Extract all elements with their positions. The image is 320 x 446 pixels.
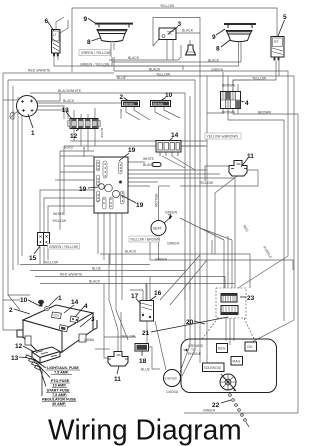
svg-text:GREEN / YELLOW: GREEN / YELLOW xyxy=(81,51,111,55)
svg-text:5: 5 xyxy=(283,14,287,21)
svg-text:BLACK: BLACK xyxy=(149,68,161,72)
svg-text:LIGHT/AUX. FUSE: LIGHT/AUX. FUSE xyxy=(47,366,79,370)
svg-text:13: 13 xyxy=(11,355,19,362)
svg-text:ENGINE: ENGINE xyxy=(188,352,202,356)
svg-text:BLACK: BLACK xyxy=(89,280,101,284)
svg-text:GREEN: GREEN xyxy=(167,242,180,246)
svg-text:13: 13 xyxy=(62,107,70,114)
svg-text:YELLOW: YELLOW xyxy=(52,219,67,223)
svg-text:YELLOW / BROWN: YELLOW / BROWN xyxy=(130,238,161,242)
svg-text:RED w/WHITE: RED w/WHITE xyxy=(60,273,83,277)
svg-text:2: 2 xyxy=(120,94,124,101)
svg-text:BLUE: BLUE xyxy=(92,267,102,271)
svg-text:BLACK: BLACK xyxy=(208,59,220,63)
svg-text:GREEN / YELLOW: GREEN / YELLOW xyxy=(49,245,79,249)
svg-text:WHITE: WHITE xyxy=(143,157,155,161)
svg-text:GREEN - YELLOW: GREEN - YELLOW xyxy=(80,63,110,67)
svg-text:16: 16 xyxy=(154,290,162,297)
svg-text:6: 6 xyxy=(45,18,49,25)
svg-text:STARTER: STARTER xyxy=(165,377,177,381)
svg-text:8: 8 xyxy=(87,39,91,46)
svg-text:LT: LT xyxy=(53,33,57,37)
svg-text:BLACK: BLACK xyxy=(125,250,137,254)
svg-text:7.5 AMP.: 7.5 AMP. xyxy=(52,393,67,397)
svg-text:SEAT: SEAT xyxy=(153,227,163,231)
svg-text:3: 3 xyxy=(91,316,95,323)
svg-text:BLACK: BLACK xyxy=(128,56,140,60)
svg-text:19: 19 xyxy=(79,186,87,193)
svg-text:12: 12 xyxy=(15,343,23,350)
svg-text:19: 19 xyxy=(128,147,136,154)
svg-text:11: 11 xyxy=(247,153,254,160)
svg-text:12: 12 xyxy=(70,133,78,140)
svg-text:9: 9 xyxy=(212,34,216,41)
svg-text:YELLOW: YELLOW xyxy=(156,73,171,77)
svg-text:BROWN: BROWN xyxy=(222,84,236,88)
svg-text:3: 3 xyxy=(178,21,182,28)
svg-text:21: 21 xyxy=(142,330,150,337)
svg-text:20: 20 xyxy=(186,319,194,326)
svg-text:YELLOW: YELLOW xyxy=(44,261,59,265)
svg-text:10 AMP.: 10 AMP. xyxy=(53,384,67,388)
svg-text:RED w/WHITE: RED w/WHITE xyxy=(28,69,51,73)
svg-text:WHITE: WHITE xyxy=(53,212,65,216)
svg-text:YELLOW: YELLOW xyxy=(252,77,267,81)
svg-text:BLACK: BLACK xyxy=(64,145,73,149)
svg-text:11: 11 xyxy=(114,376,121,383)
svg-text:BROWN: BROWN xyxy=(258,111,272,115)
svg-text:19: 19 xyxy=(136,202,144,209)
svg-text:YELLOW: YELLOW xyxy=(160,4,175,8)
svg-text:GREEN: GREEN xyxy=(165,211,178,215)
svg-text:BLACK: BLACK xyxy=(63,99,75,103)
svg-text:10: 10 xyxy=(20,297,28,304)
svg-text:30 AMP.: 30 AMP. xyxy=(52,402,66,406)
svg-text:7.5 AMP.: 7.5 AMP. xyxy=(54,371,69,375)
svg-text:GREEN: GREEN xyxy=(211,68,224,72)
svg-text:YELLOW w/BROWN: YELLOW w/BROWN xyxy=(207,135,239,139)
svg-text:9: 9 xyxy=(84,16,88,23)
svg-text:BLUE: BLUE xyxy=(117,76,127,80)
svg-text:BLACK: BLACK xyxy=(82,147,86,157)
svg-text:OIL: OIL xyxy=(247,345,253,349)
svg-text:15: 15 xyxy=(29,255,37,262)
svg-text:1400SA: 1400SA xyxy=(166,390,179,394)
svg-text:BLACK: BLACK xyxy=(100,128,104,138)
svg-text:YELLOW: YELLOW xyxy=(154,193,158,208)
svg-text:GREEN: GREEN xyxy=(155,258,168,262)
svg-text:START FUSE: START FUSE xyxy=(47,389,70,393)
svg-text:23: 23 xyxy=(247,295,255,302)
svg-text:1: 1 xyxy=(31,130,35,137)
svg-text:17: 17 xyxy=(131,293,139,300)
svg-text:7: 7 xyxy=(168,214,172,221)
svg-text:WHITE: WHITE xyxy=(119,109,123,119)
svg-text:PTO FUSE: PTO FUSE xyxy=(51,379,70,383)
svg-text:BROWN: BROWN xyxy=(153,102,163,106)
svg-text:GREEN: GREEN xyxy=(203,409,216,413)
svg-text:BROWN: BROWN xyxy=(124,102,134,106)
svg-text:4: 4 xyxy=(245,100,249,107)
svg-text:MAG: MAG xyxy=(233,360,241,364)
svg-text:REG: REG xyxy=(218,347,226,351)
svg-text:REGULATOR FUSE: REGULATOR FUSE xyxy=(42,398,76,402)
svg-text:8: 8 xyxy=(216,46,220,53)
svg-text:RT: RT xyxy=(274,40,278,44)
svg-text:140BA: 140BA xyxy=(84,338,95,342)
svg-text:1: 1 xyxy=(58,295,62,302)
svg-text:YELLOW: YELLOW xyxy=(121,335,136,339)
svg-text:10: 10 xyxy=(165,92,173,99)
svg-text:BLACK: BLACK xyxy=(143,163,155,167)
svg-text:BROWN: BROWN xyxy=(222,111,236,115)
svg-text:Wiring Diagram: Wiring Diagram xyxy=(48,414,242,446)
svg-text:SOLENOID: SOLENOID xyxy=(204,366,222,370)
svg-text:YELLOW: YELLOW xyxy=(199,181,214,185)
svg-text:14: 14 xyxy=(71,299,79,306)
svg-text:BLACK/WHITE: BLACK/WHITE xyxy=(58,89,82,93)
svg-text:18: 18 xyxy=(139,358,147,365)
svg-text:BLACK: BLACK xyxy=(182,29,194,33)
svg-text:2: 2 xyxy=(9,307,13,314)
svg-text:BLUE: BLUE xyxy=(141,368,151,372)
